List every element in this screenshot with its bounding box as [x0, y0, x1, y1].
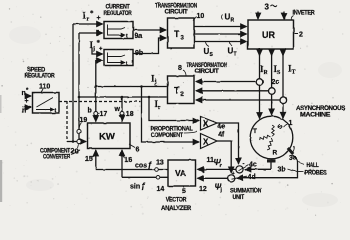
current regulator label — [104, 5, 133, 17]
Ir line from T2 — [79, 96, 167, 98]
svg-text:R: R — [273, 150, 278, 157]
wire T3 to UR (UR) — [194, 26, 247, 28]
svg-text:cos: cos — [135, 163, 147, 170]
svg-text:14: 14 — [157, 186, 165, 193]
wire feedback into 9a minus — [79, 32, 103, 34]
svg-text:w: w — [114, 106, 121, 113]
svg-text:T: T — [234, 52, 237, 58]
block KW — [88, 123, 131, 149]
label UT — [228, 47, 237, 58]
svg-text:+: + — [99, 47, 103, 53]
svg-text:CIRCUIT: CIRCUIT — [195, 69, 220, 75]
svg-text:110: 110 — [39, 84, 50, 91]
svg-text:PROBES: PROBES — [305, 171, 327, 177]
wire 9a out to T3 — [133, 29, 166, 31]
svg-text:KW: KW — [99, 132, 115, 143]
current transformer circles — [256, 79, 263, 86]
psi r line to VA — [198, 168, 236, 170]
svg-text:r: r — [220, 163, 222, 169]
svg-text:ANALYZER: ANALYZER — [161, 206, 192, 212]
svg-text:2: 2 — [181, 92, 185, 98]
svg-text:S: S — [277, 70, 281, 76]
label US — [204, 47, 214, 58]
svg-text:X: X — [203, 120, 209, 129]
cos line out of VA — [96, 169, 168, 171]
hall probe 3a — [287, 147, 295, 155]
svg-text:PROPORTIONAL: PROPORTIONAL — [151, 127, 194, 133]
label UR — [225, 13, 235, 24]
4f out to 4d — [217, 141, 231, 173]
svg-text:8: 8 — [178, 65, 182, 72]
svg-text:VA: VA — [175, 168, 186, 178]
UR output phase lines arrow stubs — [259, 50, 261, 56]
svg-text:17: 17 — [100, 111, 108, 118]
svg-text:3: 3 — [181, 36, 185, 42]
svg-text:VECTOR: VECTOR — [166, 197, 187, 203]
9b internal curve — [108, 53, 126, 63]
svg-text:COMPONENT: COMPONENT — [151, 133, 184, 139]
svg-text:16: 16 — [125, 157, 133, 164]
svg-text:2: 2 — [299, 32, 303, 39]
svg-text:*: * — [90, 10, 94, 18]
summation circle 4c — [236, 166, 243, 173]
svg-text:12: 12 — [199, 186, 207, 193]
9a internal curve — [108, 25, 126, 36]
svg-text:b: b — [88, 108, 92, 115]
wire 16 up into KW — [121, 150, 123, 177]
speed regulator block — [33, 93, 60, 114]
multiplier 4e — [201, 117, 218, 131]
svg-text:CIRCUIT: CIRCUIT — [165, 10, 189, 16]
speed regulator label — [25, 68, 56, 80]
summation unit label — [230, 189, 262, 202]
label 1 — [289, 120, 293, 127]
proportional component label — [151, 127, 194, 140]
svg-text:T: T — [174, 86, 180, 96]
wire w into KW (18) — [121, 97, 123, 122]
svg-text:-: - — [243, 162, 245, 168]
svg-text:5: 5 — [182, 189, 186, 196]
4e out to 4c — [217, 123, 239, 164]
inverter label — [293, 11, 316, 17]
label 9a — [135, 33, 143, 40]
svg-text:r: r — [158, 105, 161, 111]
drop Ir to multiplier 4e — [149, 97, 199, 121]
transformation circuit label (mid) — [186, 63, 227, 75]
svg-text:j: j — [220, 188, 223, 194]
svg-text:UR: UR — [262, 30, 275, 40]
svg-text:CONVERTER: CONVERTER — [43, 155, 71, 161]
svg-text:+: + — [25, 98, 29, 105]
svg-text:R: R — [264, 70, 269, 76]
svg-text:R: R — [231, 18, 235, 24]
regulator block 9b — [104, 50, 133, 66]
long vertical from Ir* corner down to KW input line — [72, 24, 74, 142]
wire T3 to UR (UT) — [194, 41, 247, 43]
svg-text:2c: 2c — [272, 79, 280, 86]
wire 15 up into KW — [95, 150, 97, 170]
input Ij* — [90, 39, 104, 53]
dashed speed output line — [59, 101, 141, 103]
input Ir* — [83, 10, 95, 23]
svg-text:13: 13 — [156, 160, 164, 167]
svg-text:4c: 4c — [249, 162, 257, 169]
drop Ij to multiplier 4f — [142, 87, 200, 143]
summation circle 4d — [228, 175, 235, 182]
3~ supply — [265, 3, 270, 12]
wire b into KW (17) — [95, 87, 97, 122]
svg-text:CURRENT: CURRENT — [106, 5, 131, 11]
svg-text:HALL: HALL — [307, 163, 320, 169]
svg-text:3: 3 — [265, 3, 270, 12]
dashed branch down — [66, 101, 68, 142]
regulator block 9a — [104, 22, 133, 39]
svg-text:REGULATOR: REGULATOR — [25, 74, 56, 80]
svg-text:6: 6 — [136, 147, 140, 154]
block T2 — [168, 76, 195, 104]
wire T3 to UR (US) — [194, 33, 247, 35]
transformation circuit label (top) — [155, 4, 197, 16]
svg-text:3a: 3a — [289, 155, 297, 162]
multiplier 4f — [201, 134, 218, 149]
terminal 19 — [77, 129, 81, 133]
wire Ij* into 9b — [92, 48, 103, 55]
UR output phase lines — [259, 49, 261, 119]
label 2c — [272, 79, 280, 86]
wire 9b out to T3 — [133, 38, 166, 54]
svg-text:+: + — [97, 15, 101, 22]
component converter label — [40, 149, 71, 161]
speed regulator internal — [36, 98, 53, 110]
svg-text:j: j — [154, 80, 157, 86]
svg-text:MACHINE: MACHINE — [300, 113, 330, 119]
svg-text:4f: 4f — [218, 132, 225, 139]
svg-text:T: T — [292, 70, 296, 76]
label 2 — [294, 33, 299, 35]
svg-text:S: S — [210, 52, 214, 58]
label 10 — [197, 13, 205, 20]
terminal 20 — [77, 139, 81, 143]
svg-text:ASYNCHRONOUS: ASYNCHRONOUS — [296, 106, 345, 112]
hall probes label — [305, 163, 327, 177]
svg-text:T: T — [174, 29, 180, 39]
svg-text:9a: 9a — [135, 33, 143, 40]
hall probe 3b — [267, 159, 276, 162]
sin line out of VA — [122, 176, 168, 178]
svg-text:T: T — [253, 128, 257, 135]
wire feedback into 9b minus — [96, 61, 103, 87]
label 6 — [136, 147, 140, 154]
input n* — [22, 88, 30, 97]
wire Ir* into 9a — [73, 23, 103, 25]
asynchronous machine label — [296, 106, 345, 119]
current taps into T2 — [196, 81, 256, 83]
svg-text:ƒ: ƒ — [141, 182, 146, 191]
svg-text:*: * — [26, 88, 29, 94]
block VA (vector analyzer) — [168, 160, 196, 186]
asynchronous machine — [250, 116, 293, 159]
inverter block UR — [248, 20, 294, 49]
svg-text:1: 1 — [289, 120, 293, 127]
svg-text:sin: sin — [130, 184, 140, 191]
svg-text:3b: 3b — [278, 167, 286, 174]
wire into KW left — [67, 141, 86, 143]
svg-text:REGULATOR: REGULATOR — [104, 11, 133, 17]
svg-text:ƒ: ƒ — [148, 161, 153, 170]
svg-text:4e: 4e — [218, 124, 226, 131]
Ij line from T2 — [96, 86, 167, 88]
svg-text:UNIT: UNIT — [233, 195, 245, 201]
machine windings — [272, 125, 275, 136]
label 9b — [135, 50, 143, 57]
block T3 — [168, 18, 195, 48]
input n — [22, 108, 26, 115]
svg-text:X: X — [203, 138, 209, 147]
psi j line to VA — [198, 177, 228, 179]
label 110 — [39, 84, 50, 91]
labels IR IS IT — [260, 64, 269, 76]
svg-text:SUMMATION: SUMMATION — [230, 189, 262, 195]
svg-text:INVETER: INVETER — [293, 11, 316, 17]
svg-text:18: 18 — [126, 111, 134, 118]
svg-text:10: 10 — [197, 13, 205, 20]
vertical feedback for 9a minus down to terminal 19 — [78, 33, 80, 129]
